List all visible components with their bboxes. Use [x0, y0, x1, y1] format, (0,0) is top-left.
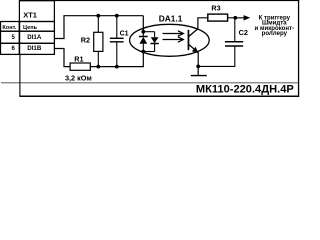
- node LED bottom junction: [141, 50, 145, 54]
- light arrow lower: [163, 37, 184, 42]
- svg-text:R3: R3: [211, 4, 220, 13]
- wire emitter down: [197, 52, 199, 75]
- capacitor C1: [110, 38, 124, 42]
- svg-text:R1: R1: [74, 54, 83, 63]
- svg-text:C2: C2: [239, 28, 248, 37]
- wire R2 bottom lead: [97, 51, 99, 66]
- svg-text:DA1.1: DA1.1: [159, 13, 183, 23]
- ground: [191, 75, 207, 77]
- light arrow upper: [163, 31, 184, 36]
- LED pair bottom wire: [143, 51, 154, 53]
- connector body left edge extension below table: [19, 54, 21, 96]
- table header row (Конт | Цепь): [1, 22, 55, 32]
- wire DI1A to top rail: [54, 16, 143, 39]
- resistor R1: [70, 63, 90, 70]
- transistor emitter arrowhead: [192, 47, 199, 53]
- node emitter junction: [196, 65, 200, 69]
- caption separator line: [1, 82, 298, 83]
- resistor R3: [208, 14, 228, 21]
- output arrow: [244, 15, 251, 20]
- wire DI1B down to R1: [54, 49, 70, 67]
- wire C1 bottom lead: [116, 42, 118, 67]
- node R2 bottom junction: [96, 65, 100, 69]
- frame top border: [19, 0, 299, 1]
- node C1 top junction: [115, 14, 119, 18]
- svg-text:Цепь: Цепь: [23, 25, 38, 31]
- svg-text:роллеру: роллеру: [262, 30, 288, 37]
- svg-text:Конт.: Конт.: [2, 25, 16, 31]
- wire R2 top lead: [97, 16, 99, 33]
- optocoupler DA1.1 body: [130, 24, 210, 56]
- svg-text:DI1A: DI1A: [27, 34, 42, 41]
- node C1 bottom junction: [115, 65, 119, 69]
- wire collector up to R3 rail: [198, 18, 208, 29]
- transistor collector line: [189, 29, 198, 37]
- svg-text:DI1B: DI1B: [27, 45, 42, 52]
- node R2 top junction: [96, 14, 100, 18]
- transistor Q1 base bar: [188, 30, 190, 50]
- wire LED input vertical (rail down to LED top junction): [142, 16, 144, 32]
- table row pin 6 / DI1B: [1, 43, 55, 54]
- wire C1 top lead: [116, 16, 118, 39]
- table column divider: [18, 22, 20, 55]
- capacitor C2: [225, 42, 243, 46]
- transistor emitter line: [189, 44, 198, 52]
- table row pin 5 / DI1A: [1, 31, 55, 43]
- node LED top junction: [141, 30, 145, 34]
- frame bottom border: [19, 96, 299, 98]
- node output junction: [233, 16, 237, 20]
- LED pair top wire: [143, 31, 154, 33]
- svg-text:R2: R2: [81, 35, 90, 44]
- svg-text:3,2 кОм: 3,2 кОм: [65, 73, 92, 82]
- svg-text:C1: C1: [120, 31, 129, 38]
- wire C2 top lead: [234, 18, 236, 42]
- diode VD2 (right, pointing down): [150, 32, 158, 52]
- diode VD1 (left, pointing up): [139, 32, 148, 52]
- resistor R2: [94, 32, 103, 51]
- wire R1 right to LED bottom junction: [90, 52, 143, 67]
- svg-text:XT1: XT1: [23, 10, 37, 19]
- frame right border: [298, 0, 299, 97]
- wire R3 right to output: [228, 17, 245, 19]
- wire C2 bottom lead to emitter net: [198, 46, 235, 66]
- svg-text:МК110-220.4ДН.4Р: МК110-220.4ДН.4Р: [196, 84, 295, 96]
- connector XT1 body box: [19, 1, 54, 22]
